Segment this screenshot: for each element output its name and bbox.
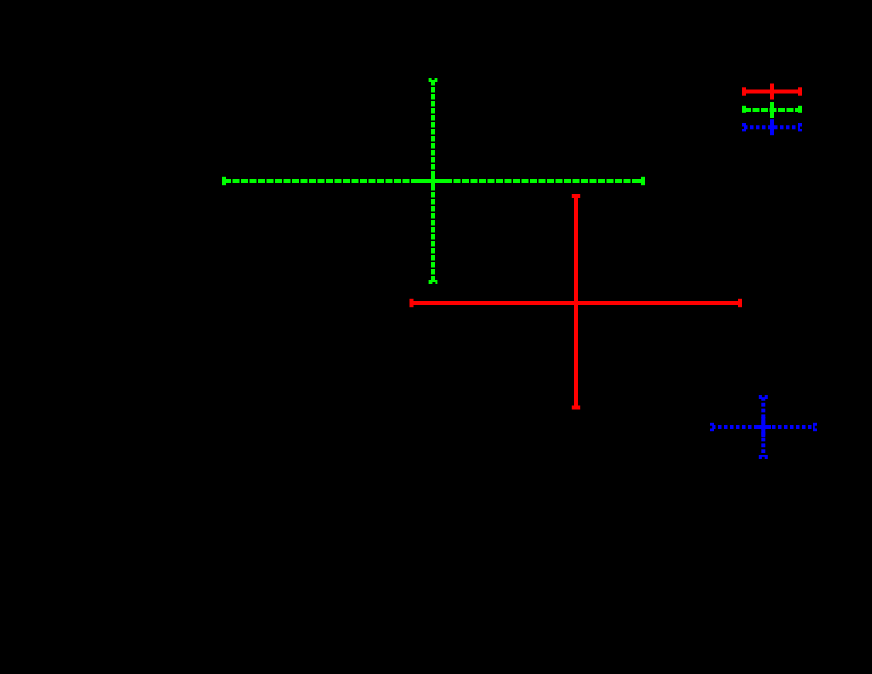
red y-error vertical line: [574, 196, 578, 408]
blue x-error left cap: [710, 423, 714, 431]
blue sample right cap: [798, 123, 802, 131]
green y-error vertical dashed line: [431, 80, 435, 282]
red x-error right cap: [738, 299, 742, 307]
green sample horizontal dashed line: [744, 108, 800, 112]
blue crossing solid vertical segment: [761, 417, 765, 437]
blue crossing solid horizontal segment: [756, 425, 771, 429]
green sample vertical tick: [770, 102, 774, 118]
blue sample vertical tick: [770, 119, 774, 135]
red data point xy-errorbar (solid): [412, 196, 741, 408]
green x-error horizontal dashed line: [224, 179, 643, 183]
legend entry 1: red solid sample: [744, 84, 800, 100]
green y-error bottom cap: [429, 280, 438, 284]
blue sample left cap: [742, 123, 746, 131]
green x-error end merge dash: [636, 179, 643, 183]
red y-error top cap: [572, 194, 580, 198]
red sample vertical tick: [770, 84, 774, 100]
blue sample horizontal dotted line: [744, 125, 800, 129]
legend entry 3: blue dotted sample: [744, 119, 800, 135]
blue x-error right cap: [813, 423, 817, 431]
green sample left cap: [742, 106, 746, 114]
green top cap dash notch: [432, 78, 435, 80]
blue y-error bottom cap: [759, 455, 768, 459]
green sample right cap: [798, 106, 802, 114]
red sample right cap: [798, 87, 802, 95]
green crossing solid vertical segment: [431, 171, 435, 190]
legend entry 2: green dashed sample: [744, 102, 800, 118]
blue left cap dash notch: [710, 426, 712, 429]
green x-error right cap: [641, 177, 645, 185]
green data point xy-errorbar (dashed): [224, 80, 643, 282]
red sample left cap: [742, 87, 746, 95]
blue right cap dash notch: [815, 426, 817, 429]
green x-error left cap: [222, 177, 226, 185]
green y-error top cap: [429, 78, 438, 82]
blue y-error vertical dotted line: [761, 397, 765, 457]
red x-error left cap: [410, 299, 414, 307]
blue bottom cap dash notch: [762, 457, 765, 459]
red y-error bottom cap: [572, 406, 580, 410]
red x-error horizontal line: [412, 301, 741, 305]
blue top cap dash notch: [762, 395, 765, 397]
blue x-error horizontal dotted line: [712, 425, 815, 429]
green crossing solid horizontal segment: [415, 179, 447, 183]
red sample horizontal line: [744, 90, 800, 94]
blue y-error top cap: [759, 395, 768, 399]
blue data point xy-errorbar (dotted): [712, 397, 815, 457]
green bottom cap dash notch: [432, 282, 435, 284]
